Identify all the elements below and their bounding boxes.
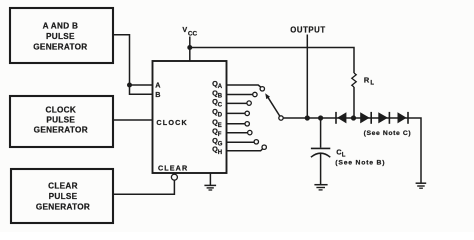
svg-text:CLEAR: CLEAR bbox=[48, 181, 78, 190]
svg-text:PULSE: PULSE bbox=[46, 32, 75, 41]
svg-text:CLOCK: CLOCK bbox=[45, 105, 76, 114]
svg-text:PULSE: PULSE bbox=[49, 192, 78, 201]
svg-text:A: A bbox=[218, 84, 223, 90]
svg-text:B: B bbox=[155, 90, 160, 99]
svg-text:GENERATOR: GENERATOR bbox=[36, 203, 90, 212]
svg-text:H: H bbox=[218, 150, 222, 156]
svg-text:(See Note C): (See Note C) bbox=[364, 130, 412, 137]
svg-text:L: L bbox=[342, 153, 346, 159]
svg-text:D: D bbox=[218, 112, 223, 118]
svg-text:F: F bbox=[218, 132, 222, 138]
svg-text:PULSE: PULSE bbox=[46, 116, 75, 125]
svg-text:B: B bbox=[218, 94, 223, 100]
svg-text:E: E bbox=[218, 123, 222, 129]
svg-text:GENERATOR: GENERATOR bbox=[34, 126, 88, 135]
svg-text:R: R bbox=[364, 75, 370, 84]
svg-text:GENERATOR: GENERATOR bbox=[33, 43, 87, 52]
svg-text:CLOCK: CLOCK bbox=[156, 118, 188, 127]
svg-text:A AND B: A AND B bbox=[43, 22, 79, 31]
svg-text:CC: CC bbox=[188, 31, 198, 38]
svg-text:A: A bbox=[155, 81, 160, 90]
svg-text:(See Note B): (See Note B) bbox=[335, 160, 385, 167]
svg-text:V: V bbox=[182, 25, 187, 34]
svg-text:C: C bbox=[218, 102, 223, 108]
svg-text:L: L bbox=[370, 81, 374, 87]
svg-text:CLEAR: CLEAR bbox=[158, 163, 188, 172]
svg-text:OUTPUT: OUTPUT bbox=[290, 26, 325, 35]
svg-text:G: G bbox=[218, 141, 223, 147]
